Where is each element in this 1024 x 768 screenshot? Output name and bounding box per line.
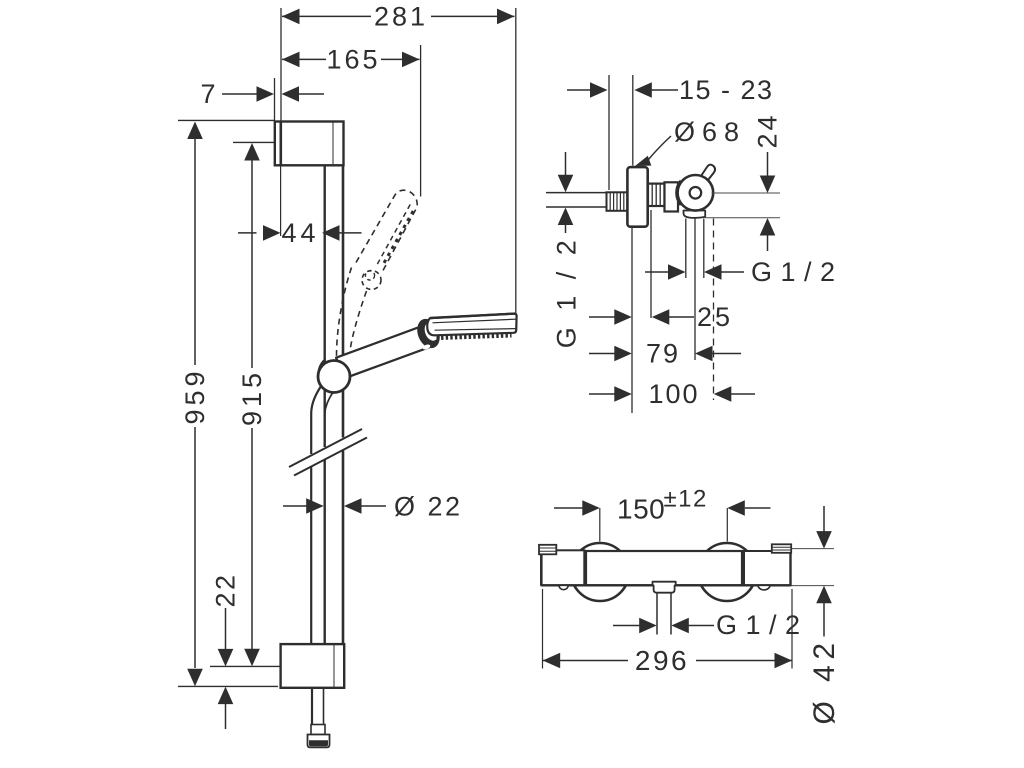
wire extension line plate front (x=632.8) (632, 75, 634, 166)
wire extension line circle tangent dashed (x=713.5) (713, 219, 715, 401)
dimension 24 line (760, 152, 776, 251)
svg-text:Ø68: Ø68 (674, 117, 746, 147)
wire extension line 296 right (x=792) (791, 589, 793, 669)
right escutcheon (772, 544, 791, 553)
phantom grip (dashed) (337, 268, 367, 360)
bar holder circle (678, 175, 714, 211)
outlet extension lines (657, 593, 671, 635)
dimension 915 line (244, 143, 260, 666)
wire extension line 296 left (x=542.5) (542, 589, 544, 669)
hand shower grip (336, 324, 435, 378)
wire extension line bracket edge (x=274.5) (274, 78, 276, 121)
svg-text:281: 281 (374, 2, 428, 32)
left knob circle (571, 543, 629, 601)
rail break marks (289, 429, 367, 476)
svg-text:15 - 23: 15 - 23 (679, 75, 774, 105)
bar holder foot (684, 211, 706, 218)
label 15-23 (679, 75, 774, 105)
wire extension line holder tip (x=420.6) (420, 45, 422, 197)
dimension 15-23 arrows (567, 82, 678, 98)
right knob circle (698, 543, 756, 601)
svg-text:100: 100 (648, 379, 699, 409)
left escutcheon (539, 545, 556, 555)
wire extension line rail end (y=666.5) (210, 665, 280, 667)
label 959 (180, 367, 210, 424)
dia42 extension lines (792, 549, 835, 586)
dimension 25 arrows (589, 309, 694, 325)
wire extension line bracket top (y=120.5) (178, 119, 275, 121)
left union arm (541, 545, 584, 585)
label 24 (753, 112, 783, 148)
svg-text:24: 24 (753, 112, 783, 148)
svg-text:G 1 / 2: G 1 / 2 (751, 257, 836, 287)
left check valve bump (559, 585, 568, 589)
dimension 150 arrows (554, 500, 771, 516)
svg-text:±12: ±12 (664, 486, 708, 513)
foot bottom line right (y=217.8) (705, 217, 780, 219)
dimension dia22 arrows (283, 498, 386, 514)
wire extension line wall face (x=609) (608, 75, 610, 190)
connector nut (648, 184, 665, 206)
phantom hand shower head (dashed) (356, 190, 417, 274)
wire extension line 150 left (x=599.8) (599, 508, 601, 542)
wire extension line wall (x=281) (280, 8, 282, 236)
dimension 165 arrows (282, 52, 420, 68)
bottom outlet (653, 582, 676, 593)
wire extension line circle centre (x=695) (694, 219, 696, 361)
bar holder knob (701, 165, 715, 182)
svg-text:150: 150 (617, 494, 665, 525)
phantom joint rings (dashed) (362, 271, 381, 290)
wire extension line plate left down (x=632) (631, 228, 633, 414)
label 100 (648, 379, 699, 409)
label 150+-12 (617, 486, 708, 525)
label dia22 (394, 492, 463, 522)
label dia68 (674, 117, 746, 147)
svg-text:7: 7 (200, 79, 215, 109)
valve body thick edges (585, 551, 742, 585)
valve body (584, 551, 743, 585)
shower rail (325, 165, 343, 644)
dimension 959 line (187, 122, 203, 687)
label dia42 (808, 637, 841, 724)
bar holder sleeve (665, 180, 681, 211)
wire extension line foot right (x=703.8) (703, 219, 705, 279)
svg-text:79: 79 (646, 339, 680, 369)
dimension 296 arrows (543, 653, 792, 669)
label 281 (374, 2, 428, 32)
label 25 (697, 302, 733, 332)
label 22 (211, 572, 241, 607)
wire extension line bracket bottom (y=686.5) (178, 685, 278, 687)
label G1/2 right (751, 257, 836, 287)
svg-text:296: 296 (635, 645, 689, 676)
dimension 281 arrows (282, 9, 515, 25)
svg-text:G 1 / 2: G 1 / 2 (716, 610, 801, 640)
bottom wall bracket (281, 644, 345, 688)
wire extension line x=651 (650, 210, 652, 318)
dimension G1/2 right arrows (645, 264, 744, 280)
centre line right of circle (y=193) (712, 192, 781, 194)
dimension 7 arrows (222, 86, 324, 102)
svg-text:165: 165 (326, 45, 380, 75)
svg-text:959: 959 (180, 367, 210, 424)
dimension 44 arrows (238, 225, 362, 241)
bar holder inner circle (690, 187, 702, 199)
wire extension line 915 top (y=142.5) (233, 141, 275, 143)
dimension G1/2 left line (558, 152, 574, 233)
svg-text:G 1 / 2: G 1 / 2 (552, 236, 582, 349)
wire extension line 150 right (x=727.3) (726, 508, 728, 542)
label G1/2 left (552, 236, 582, 349)
label G1/2 bottom (716, 610, 801, 640)
dia68 leader (635, 136, 671, 166)
dimension dia42 line (816, 506, 832, 637)
wire extension line hand shower face (x=516) (515, 8, 517, 315)
dimension 79 arrows (589, 346, 741, 362)
label 165 (326, 45, 380, 75)
right union arm (744, 551, 791, 585)
label 44 (281, 218, 319, 248)
wall pipe lines (546, 193, 607, 207)
right check valve bump (758, 585, 770, 590)
svg-text:22: 22 (211, 572, 241, 607)
wall plate escutcheon (627, 167, 647, 227)
valve bottom line (541, 584, 790, 586)
grip butt cap (319, 360, 326, 375)
svg-text:Ø 42: Ø 42 (808, 637, 841, 724)
svg-text:25: 25 (697, 302, 733, 332)
wire extension line foot left (x=685.8) (685, 219, 687, 279)
svg-text:Ø 22: Ø 22 (394, 492, 463, 522)
slider pivot circle (318, 361, 350, 393)
hand shower joint (413, 315, 444, 351)
svg-text:915: 915 (237, 369, 267, 426)
label 7 (200, 79, 215, 109)
hand shower head (427, 314, 516, 338)
dimension G1/2 bottom arrows (613, 618, 714, 634)
threaded nipple (607, 192, 628, 211)
label 296 (635, 645, 689, 676)
svg-text:44: 44 (281, 218, 319, 248)
label 79 (646, 339, 680, 369)
dimension 22 line (218, 608, 234, 729)
top wall bracket (275, 122, 344, 166)
dimension 100 arrows (589, 386, 755, 402)
label 915 (237, 369, 267, 426)
hose end nut (308, 688, 330, 748)
shower hose (311, 386, 333, 645)
